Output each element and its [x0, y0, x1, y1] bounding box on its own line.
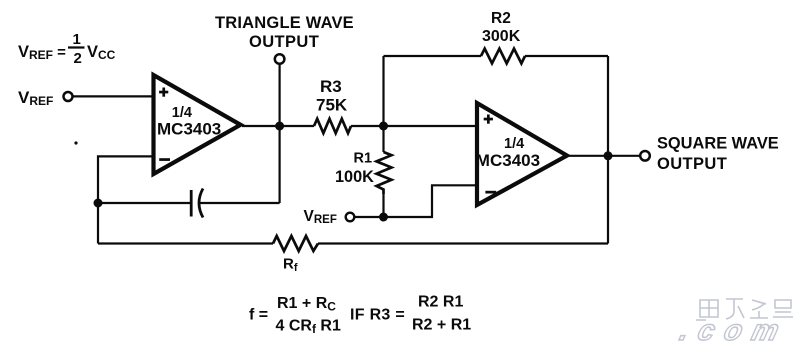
wire VREF to op-amp U1 + input — [73, 95, 155, 97]
wire R3 to U2 + input — [351, 125, 478, 127]
U1 plus sign — [159, 91, 168, 94]
wire right feedback vertical — [607, 56, 609, 244]
resistor R2 300K — [481, 49, 525, 64]
wire bottom feedback right segment — [318, 242, 608, 244]
label TRIANGLE WAVE OUTPUT — [215, 14, 354, 51]
svg-text:2: 2 — [74, 50, 82, 67]
watermark — [696, 299, 793, 320]
formula f = (R1 + RC)/(4 CRf R1) IF R3 = (R2 R1)/(R2 + R1) — [249, 294, 471, 337]
wire U1 output to R3 — [242, 125, 314, 127]
svg-text:OUTPUT: OUTPUT — [657, 155, 727, 173]
label VREF input terminal — [18, 88, 53, 108]
svg-text:MC3403: MC3403 — [157, 120, 221, 139]
label VREF lower terminal — [304, 208, 337, 226]
resistor R1 100K — [377, 126, 392, 217]
U2 minus sign — [485, 191, 496, 194]
svg-text:1: 1 — [73, 31, 81, 48]
wire capacitor to output column — [200, 202, 280, 204]
U1 minus sign — [159, 158, 170, 161]
wire VREF node to U2 - input — [354, 185, 478, 217]
wire junction up to R2 line — [382, 56, 384, 126]
wire R2 left segment — [384, 55, 482, 57]
terminal VREF input (open circle) — [64, 92, 73, 101]
op-amp U1 (1/4 MC3403) — [154, 75, 241, 174]
svg-text:f =: f = — [249, 307, 268, 324]
terminal TRIANGLE WAVE OUTPUT (open circle) — [275, 54, 285, 64]
wire U1 - input — [98, 156, 154, 243]
resistor R3 75K — [314, 119, 351, 133]
label VREF = 1/2 VCC — [18, 31, 116, 67]
wire R2 right segment — [525, 55, 608, 57]
svg-text:.com: .com — [677, 314, 793, 344]
node U1 output junction — [275, 122, 284, 131]
op-amp U2 (1/4 MC3403) — [476, 103, 567, 205]
svg-text:300K: 300K — [482, 28, 521, 45]
node U1 inverting input junction — [94, 199, 103, 208]
svg-text:SQUARE WAVE: SQUARE WAVE — [657, 134, 779, 152]
U2 plus sign — [484, 118, 493, 121]
svg-text:1/4: 1/4 — [172, 105, 192, 121]
node R1 bottom junction — [379, 213, 388, 222]
label R3 75K — [316, 77, 348, 115]
svg-text:100K: 100K — [335, 168, 374, 186]
svg-text:MC3403: MC3403 — [476, 151, 540, 170]
wire triangle output vertical — [279, 64, 281, 203]
label SQUARE WAVE OUTPUT — [657, 134, 779, 173]
svg-text:1/4: 1/4 — [504, 136, 524, 152]
wire bottom feedback left segment — [98, 242, 273, 244]
stray mark — [74, 141, 77, 144]
resistor Rf — [273, 236, 318, 251]
svg-text:R3: R3 — [320, 77, 342, 96]
svg-text:R2 R1: R2 R1 — [418, 294, 463, 311]
svg-text:R1: R1 — [354, 151, 373, 167]
terminal SQUARE WAVE OUTPUT (open circle) — [640, 151, 650, 161]
svg-text:R2 + R1: R2 + R1 — [412, 317, 471, 334]
svg-text:75K: 75K — [316, 96, 348, 115]
node R3/R1/R2 junction — [379, 122, 388, 131]
terminal VREF lower (open circle) — [346, 213, 355, 222]
svg-text:OUTPUT: OUTPUT — [249, 33, 319, 51]
node U2 output junction — [604, 151, 613, 160]
svg-text:TRIANGLE WAVE: TRIANGLE WAVE — [215, 14, 354, 32]
svg-text:R2: R2 — [491, 10, 511, 27]
label R2 300K — [482, 10, 521, 45]
svg-text:4 CRf R1: 4 CRf R1 — [276, 318, 341, 337]
wire U2 output — [568, 155, 641, 157]
svg-text:IF R3 =: IF R3 = — [350, 307, 405, 324]
wire node to capacitor — [98, 202, 190, 204]
label R1 100K — [335, 151, 374, 187]
capacitor C (integrator) — [191, 189, 203, 218]
